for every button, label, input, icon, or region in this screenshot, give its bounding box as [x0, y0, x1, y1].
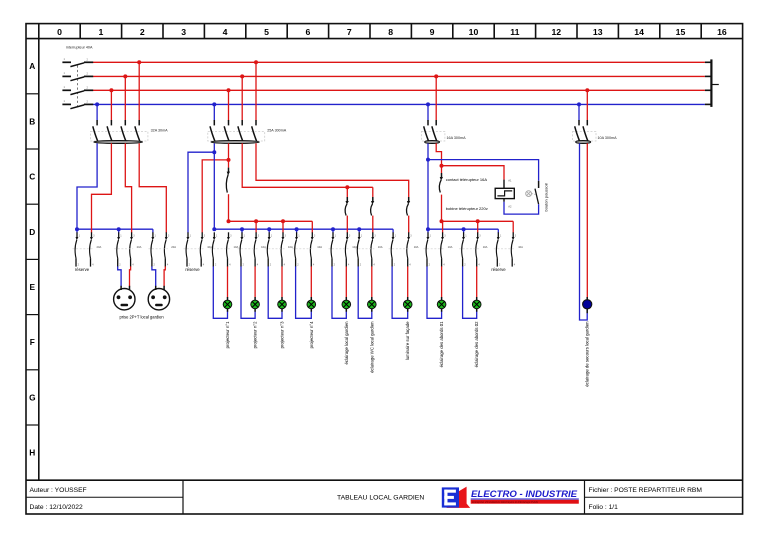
svg-text:éclairage WC local gardien: éclairage WC local gardien: [369, 321, 374, 373]
svg-text:25A 300mA: 25A 300mA: [267, 129, 287, 133]
svg-text:7: 7: [347, 27, 352, 37]
svg-text:10A: 10A: [378, 245, 383, 249]
svg-text:réserve: réserve: [491, 267, 506, 272]
svg-text:32A 30mA: 32A 30mA: [151, 129, 169, 133]
svg-text:1: 1: [98, 27, 103, 37]
svg-text:projecteur n°4: projecteur n°4: [309, 321, 314, 348]
svg-text:B: B: [29, 116, 35, 126]
svg-text:10A: 10A: [317, 245, 322, 249]
svg-text:5: 5: [264, 27, 269, 37]
svg-text:10A: 10A: [448, 245, 453, 249]
svg-text:réserve: réserve: [185, 267, 200, 272]
svg-text:A: A: [29, 61, 35, 71]
svg-text:éclairage de secours local gar: éclairage de secours local gardien: [585, 321, 590, 387]
svg-text:20A: 20A: [97, 245, 102, 249]
svg-text:12: 12: [551, 27, 561, 37]
svg-text:Auteur : YOUSSEF: Auteur : YOUSSEF: [30, 487, 87, 494]
svg-text:contact télérupteur 16A: contact télérupteur 16A: [446, 177, 488, 182]
svg-text:2: 2: [140, 27, 145, 37]
svg-text:3: 3: [181, 27, 186, 37]
svg-text:D: D: [29, 227, 35, 237]
svg-text:H: H: [29, 448, 35, 458]
svg-text:10A 300mA: 10A 300mA: [598, 136, 618, 140]
svg-text:prise 2P+T local gardien: prise 2P+T local gardien: [120, 315, 165, 320]
svg-text:interrupteur 40A: interrupteur 40A: [66, 46, 93, 50]
svg-text:E: E: [30, 282, 36, 292]
svg-text:TABLEAU LOCAL GARDIEN: TABLEAU LOCAL GARDIEN: [337, 495, 424, 502]
svg-text:9: 9: [430, 27, 435, 37]
svg-text:16: 16: [717, 27, 727, 37]
svg-text:bobine télérupteur 220v: bobine télérupteur 220v: [446, 206, 488, 211]
svg-text:éclairage local gardien: éclairage local gardien: [344, 321, 349, 365]
svg-text:11: 11: [510, 27, 519, 37]
svg-text:A1: A1: [508, 178, 512, 182]
svg-text:G: G: [29, 392, 35, 402]
svg-text:A2: A2: [508, 204, 512, 208]
svg-text:10: 10: [469, 27, 479, 37]
svg-text:13: 13: [593, 27, 603, 37]
svg-text:10A: 10A: [518, 245, 523, 249]
svg-text:6: 6: [305, 27, 310, 37]
svg-text:éclairage des abords 01: éclairage des abords 01: [439, 321, 444, 367]
svg-text:20A: 20A: [171, 245, 176, 249]
svg-text:bouton poussoir: bouton poussoir: [543, 182, 548, 211]
svg-text:luminaire sur façade: luminaire sur façade: [405, 321, 410, 360]
svg-text:20A: 20A: [137, 245, 142, 249]
svg-text:projecteur n°3: projecteur n°3: [280, 321, 285, 348]
svg-text:C: C: [29, 172, 35, 182]
svg-text:14: 14: [634, 27, 644, 37]
svg-text:réserve: réserve: [75, 267, 90, 272]
svg-text:Fichier : POSTE REPARTITEUR RB: Fichier : POSTE REPARTITEUR RBM: [589, 487, 703, 494]
svg-text:0: 0: [57, 27, 62, 37]
svg-text:Entreprise d'Installations Ele: Entreprise d'Installations Electriques e…: [472, 500, 539, 504]
svg-text:F: F: [30, 337, 35, 347]
svg-text:10A: 10A: [414, 245, 419, 249]
svg-text:éclairage des abords 02: éclairage des abords 02: [474, 321, 479, 367]
svg-text:ELECTRO - INDUSTRIE: ELECTRO - INDUSTRIE: [471, 489, 578, 500]
svg-text:8: 8: [388, 27, 393, 37]
svg-text:projecteur n°1: projecteur n°1: [225, 321, 230, 348]
svg-text:15: 15: [676, 27, 686, 37]
svg-text:Folio : 1/1: Folio : 1/1: [589, 504, 619, 511]
svg-text:10A: 10A: [483, 245, 488, 249]
svg-text:4: 4: [223, 27, 228, 37]
svg-text:projecteur n°2: projecteur n°2: [253, 321, 258, 348]
svg-text:16A 300mA: 16A 300mA: [447, 136, 467, 140]
svg-text:Date : 12/10/2022: Date : 12/10/2022: [30, 504, 83, 511]
